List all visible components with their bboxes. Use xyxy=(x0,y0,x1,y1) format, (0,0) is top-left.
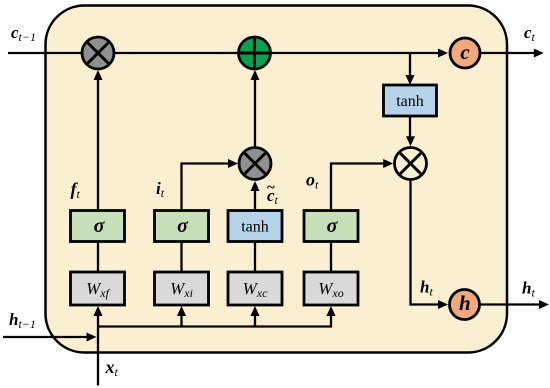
svg-text:ht−1: ht−1 xyxy=(9,310,36,331)
svg-text:σ: σ xyxy=(177,215,189,237)
svg-text:σ: σ xyxy=(94,215,106,237)
svg-text:ht: ht xyxy=(522,279,535,300)
svg-text:ct: ct xyxy=(524,23,536,44)
svg-text:h: h xyxy=(459,291,471,315)
svg-text:tanh: tanh xyxy=(396,93,424,110)
svg-text:ct−1: ct−1 xyxy=(11,23,36,44)
svg-text:c: c xyxy=(460,40,470,64)
svg-text:σ: σ xyxy=(327,215,339,237)
svg-text:xt: xt xyxy=(105,357,119,379)
svg-text:tanh: tanh xyxy=(241,219,269,236)
